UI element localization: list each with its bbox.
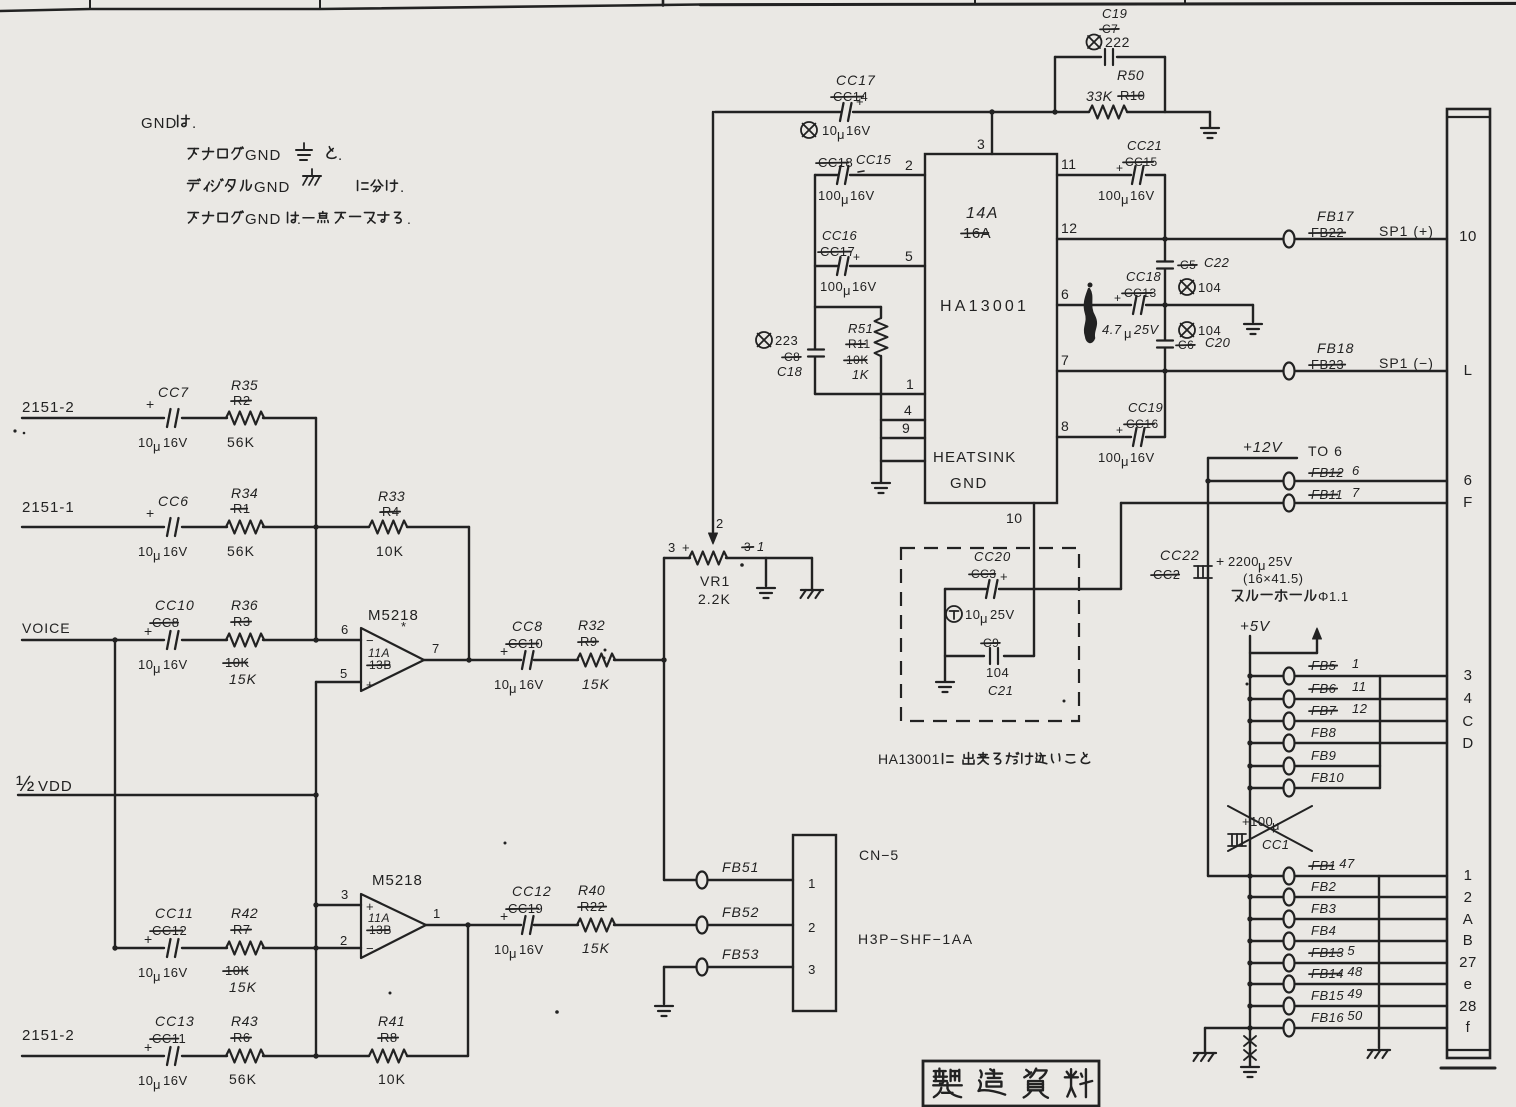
svg-text:+: +: [853, 250, 861, 264]
svg-text:HA13001: HA13001: [878, 751, 940, 767]
svg-text:TO 6: TO 6: [1308, 443, 1343, 459]
svg-text:CN−5: CN−5: [859, 847, 899, 863]
svg-text:D: D: [1462, 735, 1473, 752]
wire FB15 row: [1247, 1003, 1447, 1008]
svg-text:1: 1: [1464, 867, 1473, 884]
wire CC20 row: [945, 588, 1121, 590]
label +12V: [1208, 439, 1297, 458]
svg-text:25V: 25V: [1133, 322, 1159, 337]
wire op2 feedback vertical: [467, 925, 469, 1056]
label FB13: [1309, 943, 1355, 960]
capacitor CC21 100u: [1098, 138, 1162, 207]
svg-text:+: +: [146, 505, 155, 521]
svg-text:10: 10: [1459, 228, 1477, 245]
connector pin 4: [1464, 690, 1473, 707]
resistor R34 56K: [226, 485, 264, 559]
svg-text:FB17: FB17: [1317, 208, 1355, 224]
svg-text:μ: μ: [843, 283, 851, 298]
capacitor C19 222: [1087, 6, 1130, 65]
svg-text:+: +: [1000, 569, 1008, 584]
svg-text:7: 7: [432, 641, 440, 656]
svg-text:3: 3: [341, 887, 349, 902]
svg-text:μ: μ: [153, 1077, 161, 1092]
net label half VDD: [16, 771, 73, 796]
connector pin F: [1463, 494, 1473, 511]
svg-text:47: 47: [1339, 856, 1355, 871]
svg-text:GND: GND: [254, 179, 290, 196]
svg-text:μ: μ: [1124, 326, 1132, 341]
svg-text:CC11: CC11: [155, 905, 194, 921]
svg-text:222: 222: [1105, 34, 1130, 50]
svg-text:.: .: [400, 179, 405, 196]
svg-text:15K: 15K: [229, 979, 257, 995]
wire FB4 row: [1247, 938, 1447, 943]
capacitor CC11: [138, 905, 194, 984]
svg-text:16V: 16V: [850, 188, 875, 203]
capacitor CC13: [138, 1013, 195, 1092]
note close to HA13001: [878, 751, 1090, 767]
wire pin10 out to connector F: [1121, 503, 1447, 589]
ferrite bead FB9: [1284, 758, 1295, 775]
wire pin4: [881, 402, 925, 420]
capacitor CC18 4.7u: [1102, 269, 1162, 341]
label FB7: [1309, 701, 1368, 718]
ground HA13001 pins: [872, 483, 890, 493]
wire 2151-2 bottom row: [22, 1053, 468, 1058]
label FB3: [1311, 901, 1337, 916]
connector CN-5 box: [793, 835, 836, 1011]
svg-text:12: 12: [1352, 701, 1368, 716]
svg-text:μ: μ: [153, 661, 161, 676]
svg-text:6: 6: [1061, 286, 1069, 302]
svg-text:100: 100: [1098, 188, 1121, 203]
svg-text:16V: 16V: [163, 965, 188, 980]
capacitor CC6: [138, 493, 189, 563]
svg-text:10: 10: [138, 965, 153, 980]
svg-text:10: 10: [494, 942, 509, 957]
ground chassis at VR1: [801, 558, 824, 598]
svg-text:3: 3: [977, 136, 985, 152]
wire pin9: [881, 420, 925, 438]
resistor R51 1K: [844, 318, 888, 382]
svg-text:FB15: FB15: [1311, 988, 1344, 1003]
note GNDwa: [141, 115, 197, 132]
wire FB53 row: [664, 966, 793, 968]
svg-text:μ: μ: [841, 192, 849, 207]
svg-text:μ: μ: [1121, 192, 1129, 207]
label TO 6: [1308, 443, 1343, 459]
note analog ground symbol: [296, 143, 312, 160]
capacitor CC10: [138, 597, 195, 676]
IC U2 HA13001: [925, 154, 1057, 503]
svg-text:FB51: FB51: [722, 859, 759, 875]
svg-text:1: 1: [757, 539, 765, 554]
svg-text:16V: 16V: [163, 1073, 188, 1088]
connector pin L: [1464, 362, 1473, 379]
svg-text:CC20: CC20: [974, 549, 1011, 564]
wire VOICE to op2 branch vertical: [114, 640, 116, 948]
note niwake: [358, 179, 405, 196]
svg-text:12: 12: [1061, 220, 1078, 236]
capacitor CC20: [969, 549, 1011, 598]
title block border: [0, 0, 1516, 11]
svg-text:10: 10: [1006, 510, 1023, 526]
svg-text:μ: μ: [980, 611, 988, 626]
svg-text:Φ: Φ: [1318, 589, 1329, 604]
wire +12V to FB1 corner: [1208, 875, 1250, 877]
wire CC20 left vertical: [944, 589, 946, 681]
svg-text:25V: 25V: [1268, 554, 1293, 569]
svg-text:R40: R40: [578, 882, 605, 898]
svg-text:2151-2: 2151-2: [22, 1027, 75, 1044]
svg-text:+5V: +5V: [1240, 618, 1271, 635]
wire FB6 row: [1247, 696, 1447, 701]
connector pin 28: [1459, 998, 1477, 1015]
wire FB52 row: [614, 924, 793, 926]
ferrite bead FB10: [1284, 780, 1295, 797]
svg-text:μ: μ: [153, 439, 161, 454]
svg-text:.: .: [192, 115, 197, 132]
wire pin12 SP1+: [1057, 220, 1447, 242]
connector pin 6: [1464, 472, 1473, 489]
svg-text:CC8: CC8: [512, 618, 543, 634]
svg-text:VR1: VR1: [700, 573, 730, 589]
wire VR node vertical down to FB51: [663, 558, 665, 880]
VR1 pin labels: [668, 539, 765, 555]
svg-text:10: 10: [822, 123, 837, 138]
svg-text:M5218: M5218: [368, 607, 419, 624]
svg-text:C18: C18: [777, 364, 803, 379]
wire node A vertical lower: [315, 527, 317, 640]
net label 2151-1: [22, 499, 75, 516]
wire 2151-2 row: [22, 417, 316, 419]
svg-text:μ: μ: [1121, 454, 1129, 469]
svg-text:100: 100: [818, 188, 841, 203]
svg-text:104: 104: [1198, 280, 1221, 295]
svg-text:3: 3: [668, 540, 676, 555]
svg-text:33K: 33K: [1086, 88, 1113, 104]
svg-text:SP1 (−): SP1 (−): [1379, 355, 1434, 371]
svg-text:½: ½: [16, 771, 35, 796]
svg-text:R32: R32: [578, 617, 605, 633]
svg-text:104: 104: [986, 665, 1009, 680]
wire half VDD: [18, 792, 319, 797]
label 10u25V: [946, 606, 1015, 626]
svg-text:CC18: CC18: [1126, 269, 1162, 284]
svg-text:HA13001: HA13001: [940, 298, 1029, 315]
svg-text:2.2K: 2.2K: [698, 591, 731, 607]
svg-text:4: 4: [1464, 690, 1473, 707]
wire +12V vertical: [1207, 458, 1209, 876]
svg-text:FB4: FB4: [1311, 923, 1336, 938]
junction node A: [313, 524, 318, 529]
svg-text:μ: μ: [509, 946, 517, 961]
wire pin5: [815, 248, 925, 266]
wire FB12 row: [1205, 478, 1447, 483]
svg-text:10K: 10K: [378, 1071, 406, 1087]
svg-text:CC21: CC21: [1127, 138, 1162, 153]
svg-text:223: 223: [775, 333, 798, 348]
capacitor CC1 crossed out: [1228, 806, 1312, 852]
svg-text:CC13: CC13: [155, 1013, 195, 1029]
svg-text:56K: 56K: [229, 1071, 257, 1087]
svg-text:+: +: [500, 643, 509, 659]
wire C19 branch: [1055, 57, 1165, 112]
svg-text:1: 1: [1352, 656, 1360, 671]
svg-text:5: 5: [905, 248, 913, 264]
svg-text:+: +: [682, 540, 690, 555]
wire feedback down to op1 output: [468, 527, 470, 660]
svg-text:1: 1: [906, 376, 914, 392]
capacitor C22 104: [1157, 255, 1230, 295]
capacitor CC8: [494, 618, 544, 696]
svg-text:14A: 14A: [966, 205, 999, 222]
label FB52: [722, 904, 759, 920]
capacitor C21 104: [945, 636, 1034, 698]
resistor R41 10K: [369, 1013, 407, 1087]
label FB14: [1309, 964, 1363, 981]
svg-text:R35: R35: [231, 377, 258, 393]
label FB53: [722, 946, 759, 962]
svg-text:5: 5: [1347, 943, 1355, 958]
ferrite bead FB6: [1284, 691, 1295, 708]
ground after R50: [1201, 112, 1219, 138]
capacitor CC17: [801, 72, 876, 142]
svg-text:FB2: FB2: [1311, 879, 1337, 894]
label FB10: [1311, 770, 1344, 785]
stamp seizou shiryou: [923, 1061, 1099, 1106]
wire FB5 row: [1247, 673, 1447, 678]
ferrite bead FB16: [1284, 1020, 1295, 1037]
wire FB9 row: [1247, 763, 1380, 768]
wire R32 to VR node: [614, 657, 667, 662]
svg-text:16V: 16V: [1130, 188, 1155, 203]
svg-text:FB16: FB16: [1311, 1010, 1344, 1025]
resistor R33 10K feedback: [369, 488, 407, 559]
wire left cap bus vertical: [814, 175, 816, 394]
ferrite bead FB14: [1284, 976, 1295, 993]
svg-text:−: −: [366, 941, 374, 956]
ferrite bead FB13: [1284, 955, 1295, 972]
svg-text:μ: μ: [153, 969, 161, 984]
connector pin f: [1466, 1019, 1471, 1036]
capacitor C18 223: [756, 332, 824, 379]
svg-text:9: 9: [902, 420, 910, 436]
svg-text:2: 2: [808, 920, 816, 935]
resistor R40 15K: [577, 882, 615, 956]
svg-text:56K: 56K: [227, 434, 255, 450]
ferrite bead FB11: [1284, 495, 1295, 512]
wire pin10: [1006, 503, 1034, 589]
wire op1 output pin7: [424, 657, 521, 662]
ferrite bead FB12: [1284, 473, 1295, 490]
svg-text:.: .: [297, 211, 301, 227]
svg-text:VDD: VDD: [38, 778, 73, 795]
svg-text:C19: C19: [1102, 6, 1127, 21]
wire FB14 row: [1247, 981, 1447, 986]
svg-text:VOICE: VOICE: [22, 620, 71, 636]
svg-text:28: 28: [1459, 998, 1477, 1015]
svg-text:15K: 15K: [582, 940, 610, 956]
ground at pin6 network: [1244, 305, 1262, 334]
wire pin ground bus: [880, 394, 882, 482]
op-amp U3 M5218: [340, 872, 441, 958]
svg-text:27: 27: [1459, 954, 1477, 971]
connector pin 3: [1464, 667, 1473, 684]
junction op1 inverting node: [313, 637, 318, 642]
wire FB3 row: [1247, 916, 1447, 921]
svg-text:FB9: FB9: [1311, 748, 1336, 763]
svg-text:+: +: [856, 94, 864, 109]
wire pin1: [815, 376, 925, 394]
connector pin 2: [1464, 889, 1473, 906]
connector pin B: [1463, 932, 1474, 949]
svg-text:2151-1: 2151-1: [22, 499, 75, 516]
wire to chassis ground left: [1194, 1028, 1251, 1061]
wire pin6: [1057, 286, 1253, 308]
svg-text:CC7: CC7: [158, 384, 189, 400]
svg-text:10: 10: [138, 1073, 153, 1088]
wire pin7 SP1-: [1057, 352, 1447, 374]
wire to R32: [534, 659, 578, 661]
ground FB53: [655, 967, 673, 1016]
svg-text:2200: 2200: [1228, 554, 1259, 569]
resistor R32 15K: [577, 617, 615, 692]
svg-text:.: .: [407, 211, 411, 227]
svg-text:1.1: 1.1: [1329, 589, 1349, 604]
wire pin8: [1057, 418, 1165, 437]
wire op2 pin3: [313, 887, 361, 908]
ferrite bead FB52: [697, 917, 708, 934]
label FB17 SP1+: [1309, 208, 1434, 240]
resistor R35 56K: [226, 377, 264, 450]
wire FB7 row: [1247, 718, 1447, 723]
label FB6: [1309, 679, 1367, 696]
ground crossed below +5V bus: [1241, 1028, 1259, 1077]
svg-text:11: 11: [1061, 156, 1077, 172]
wire R51 cell: [815, 307, 881, 394]
svg-text:7: 7: [1352, 485, 1360, 500]
ink blot: [1085, 283, 1096, 342]
svg-text:2: 2: [905, 157, 913, 173]
svg-text:μ: μ: [153, 548, 161, 563]
svg-text:10: 10: [965, 607, 980, 622]
ferrite bead FB2: [1284, 889, 1295, 906]
svg-text:A: A: [1463, 911, 1474, 928]
svg-text:15K: 15K: [229, 671, 257, 687]
wire to R40: [534, 924, 578, 926]
capacitor CC12: [494, 883, 552, 961]
svg-text:8: 8: [1061, 418, 1069, 434]
svg-text:R43: R43: [231, 1013, 258, 1029]
ferrite bead FB53: [697, 959, 708, 976]
note chassis ground symbol: [303, 169, 321, 185]
svg-text:+12V: +12V: [1243, 439, 1283, 456]
ferrite bead FB8: [1284, 735, 1295, 752]
wire mid vertical bus: [315, 795, 317, 1056]
svg-text:R51: R51: [848, 321, 873, 336]
svg-text:16V: 16V: [1130, 450, 1155, 465]
svg-text:μ: μ: [509, 681, 517, 696]
svg-text:1: 1: [433, 906, 441, 921]
svg-text:CC22: CC22: [1160, 547, 1200, 563]
connector pin D: [1462, 735, 1473, 752]
svg-text:C20: C20: [1205, 335, 1231, 350]
label FB1: [1309, 856, 1355, 873]
capacitor CC15 100u: [816, 152, 892, 207]
svg-text:GND: GND: [245, 211, 281, 228]
label +5V: [1240, 618, 1271, 635]
svg-text:e: e: [1464, 976, 1473, 993]
svg-text:16V: 16V: [519, 942, 544, 957]
svg-text:16V: 16V: [163, 435, 188, 450]
svg-text:CC6: CC6: [158, 493, 189, 509]
label FB4: [1311, 923, 1336, 938]
svg-text:CC1: CC1: [1262, 837, 1290, 852]
svg-text:56K: 56K: [227, 543, 255, 559]
wire VR1 wiper from CC17 node with arrow pin2: [709, 112, 724, 544]
svg-text:HEATSINK: HEATSINK: [933, 449, 1017, 466]
svg-text:10: 10: [138, 657, 153, 672]
svg-text:R42: R42: [231, 905, 258, 921]
svg-text:+: +: [144, 1039, 153, 1055]
label FB51: [722, 859, 759, 875]
svg-text:CC16: CC16: [822, 228, 858, 243]
svg-text:10K: 10K: [376, 543, 404, 559]
svg-text:2: 2: [716, 516, 724, 531]
svg-text:15K: 15K: [582, 676, 610, 692]
svg-text:7: 7: [1061, 352, 1069, 368]
wire heatsink pin: [881, 460, 925, 462]
svg-text:10: 10: [138, 544, 153, 559]
label FB11 7: [1309, 485, 1360, 502]
wire right cap bus vertical: [1164, 175, 1166, 437]
svg-text:M5218: M5218: [372, 872, 423, 889]
wire 2151-1 row: [22, 526, 469, 528]
capacitor C20 104: [1157, 322, 1231, 352]
wire VR1 top: [664, 557, 812, 559]
ferrite bead FB15: [1284, 998, 1295, 1015]
capacitor CC7: [138, 384, 189, 454]
svg-text:11: 11: [1352, 679, 1367, 694]
svg-text:+: +: [1116, 161, 1124, 175]
svg-text:100: 100: [820, 279, 843, 294]
svg-text:FB53: FB53: [722, 946, 759, 962]
wire pin11: [1057, 156, 1165, 175]
wire op1 pin5 down to half VDD: [315, 682, 317, 795]
connector pin 10: [1459, 228, 1477, 245]
note digital GND text: [188, 179, 291, 196]
wire +5V vertical bus: [1249, 636, 1251, 1028]
svg-text:16V: 16V: [846, 123, 871, 138]
ferrite bead FB3: [1284, 911, 1295, 928]
wire FB group1 bus: [1379, 676, 1381, 788]
svg-text:H3P−SHF−1AA: H3P−SHF−1AA: [858, 931, 974, 947]
resistor R50 33K: [1086, 67, 1145, 119]
label H3P-SHF-1AA: [858, 931, 974, 947]
svg-text:+: +: [500, 908, 509, 924]
wire FB16 row: [1247, 1025, 1447, 1030]
label FB9: [1311, 748, 1336, 763]
svg-text:CC15: CC15: [856, 152, 892, 167]
svg-text:R33: R33: [378, 488, 405, 504]
ferrite bead FB5: [1284, 668, 1295, 685]
resistor R43 56K: [226, 1013, 264, 1087]
label FB18 SP1-: [1309, 340, 1434, 372]
label FB16: [1311, 1008, 1363, 1025]
wire op2 output pin1: [426, 922, 521, 927]
connector pin A: [1463, 911, 1474, 928]
